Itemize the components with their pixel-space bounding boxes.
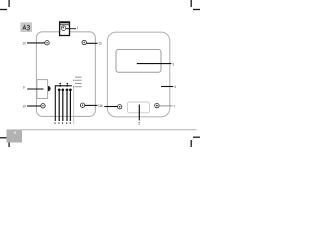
svg-text:3: 3 <box>172 62 174 66</box>
svg-text:1: 1 <box>77 26 79 30</box>
screw top-left <box>45 41 49 45</box>
wire tag 5 <box>70 122 71 124</box>
wire tag 4 <box>66 122 67 124</box>
leader to label 1 <box>66 28 76 30</box>
sensor left <box>118 105 122 109</box>
sensor right <box>155 103 159 107</box>
crop mark top-left vertical <box>8 0 10 7</box>
relay latch bump <box>48 86 51 91</box>
display <box>116 50 161 73</box>
leader relay <box>27 88 43 90</box>
svg-text:10: 10 <box>98 42 102 46</box>
clip component body <box>60 22 70 36</box>
terminal dot 1 <box>58 88 61 91</box>
clip turn icon <box>61 26 66 31</box>
svg-text:7: 7 <box>173 104 175 108</box>
svg-text:5: 5 <box>138 121 140 125</box>
clip top bar <box>59 22 70 24</box>
screw top-right <box>82 40 86 44</box>
screw bottom-left <box>41 104 45 108</box>
terminal dot 2 <box>61 88 64 91</box>
legend row 1 <box>75 76 82 79</box>
footer page box <box>7 129 23 142</box>
screw bottom-right <box>80 103 84 107</box>
svg-text:4: 4 <box>174 85 176 89</box>
crop mark top-left horizontal <box>0 9 7 11</box>
legend row 3 <box>75 82 82 85</box>
step label A3 <box>20 22 32 32</box>
svg-text:10: 10 <box>22 41 26 45</box>
leader screw top-right <box>87 42 98 44</box>
legend row 2 <box>73 79 74 82</box>
leader screw bottom-right <box>85 104 97 106</box>
button <box>128 102 150 113</box>
insert arrow 2 <box>66 83 68 85</box>
footer rule <box>22 129 197 131</box>
leader sensor right <box>159 105 172 107</box>
insert arrow 1 <box>59 83 61 85</box>
leader screw bottom-left <box>27 105 41 107</box>
wire 2 <box>58 91 60 122</box>
wire 5 <box>69 91 71 122</box>
svg-text:10: 10 <box>22 104 26 108</box>
grey wire <box>73 86 75 124</box>
clip divider <box>60 24 70 26</box>
crop mark top-right vertical <box>190 0 192 7</box>
crop mark bottom-left vertical <box>8 141 10 148</box>
svg-text:6: 6 <box>101 104 103 108</box>
terminal bus <box>55 86 72 121</box>
footer page number <box>14 131 16 134</box>
leader sensor left <box>104 106 117 108</box>
wire tag 3 <box>62 122 63 124</box>
leader button <box>138 105 140 121</box>
crop mark bottom-right vertical <box>190 140 192 147</box>
wire 3 <box>62 91 64 122</box>
wire 4 <box>66 91 68 122</box>
relay module body <box>37 80 48 99</box>
leader screw top-left <box>27 42 45 44</box>
crop mark top-right horizontal <box>193 9 200 11</box>
wire tag 1 <box>55 122 56 124</box>
thermostat body <box>107 32 169 117</box>
leader display <box>137 63 172 65</box>
legend row 4 <box>73 85 74 88</box>
crop mark bottom-left horizontal <box>0 137 7 139</box>
svg-text:9: 9 <box>23 86 25 90</box>
terminal dot 3 <box>66 88 69 91</box>
crop mark bottom-right horizontal <box>193 136 200 138</box>
terminal dot 4 <box>69 88 72 91</box>
wall plate outline <box>36 32 95 117</box>
wire tag 2 <box>58 122 59 124</box>
leader front face <box>161 86 173 88</box>
